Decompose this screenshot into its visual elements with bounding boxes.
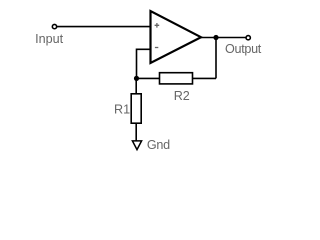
svg-text:Gnd: Gnd — [147, 138, 170, 152]
wire input to op-amp non-inverting input — [57, 26, 152, 28]
wire feedback node to R2 left — [137, 77, 160, 79]
resistor R2 — [160, 73, 193, 84]
junction dot at output — [213, 35, 218, 40]
svg-text:R1: R1 — [114, 102, 130, 116]
junction dot at feedback node A — [134, 76, 139, 81]
wire inverting input to feedback node — [137, 49, 152, 78]
resistor R1 — [131, 94, 141, 123]
wire riser to output row — [215, 38, 217, 79]
svg-text:R2: R2 — [174, 89, 190, 103]
wire R2 right to riser — [193, 77, 217, 79]
input terminal circle — [52, 24, 56, 28]
op-amp minus symbol — [155, 47, 158, 49]
output terminal circle — [246, 36, 250, 40]
op-amp U1 — [151, 11, 202, 63]
wire output row: apex to output terminal — [200, 37, 246, 39]
svg-text:Input: Input — [35, 32, 64, 46]
op-amp plus symbol — [155, 23, 160, 28]
ground symbol — [132, 141, 141, 150]
wire feedback node to R1 top — [135, 78, 137, 94]
svg-text:Output: Output — [225, 42, 262, 56]
wire R1 bottom to ground — [135, 123, 137, 141]
